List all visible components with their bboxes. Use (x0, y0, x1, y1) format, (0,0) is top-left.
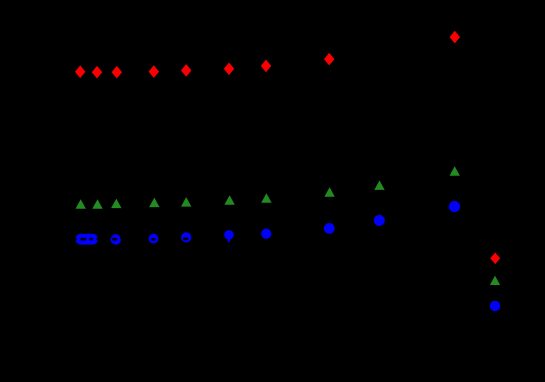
green triangle point 5 (181, 197, 191, 207)
green triangle point 4 (149, 198, 159, 208)
legend red diamond marker (490, 253, 500, 265)
legend blue circle marker (490, 301, 500, 311)
blue circle point 8 (324, 223, 335, 234)
blue circle point 10 (449, 201, 460, 212)
blue circle point 7 (261, 229, 271, 239)
blue stub below point 6 (228, 239, 230, 242)
black dashed fit line segment at cluster right edge (97, 238, 100, 241)
blue circle point 9 (374, 215, 385, 226)
red diamond point 7 (261, 60, 271, 73)
red diamond point 9 (450, 31, 460, 44)
green triangle point 8 (324, 187, 334, 197)
blue circle point 4 (149, 234, 159, 244)
red diamond point 5 (181, 64, 191, 77)
black dashed fit line segment inside point 5 (183, 238, 189, 241)
green triangle point 9 (374, 180, 384, 190)
blue circle point 3 (111, 234, 122, 245)
red diamond point 6 (224, 63, 234, 76)
green triangle point 7 (261, 193, 271, 203)
red diamond point 2 (92, 66, 102, 79)
green triangle point 10 (450, 166, 460, 176)
blue circle point 5 (181, 232, 191, 242)
black dashed fit line segment inside point 4 (151, 238, 155, 241)
green triangle point 6 (224, 195, 234, 205)
green triangle point 2 (92, 199, 102, 209)
blue merged cluster points 1-2 (75, 234, 98, 245)
red diamond point 1 (75, 65, 85, 78)
red diamond point 4 (149, 65, 159, 78)
red diamond point 8 (324, 53, 334, 66)
black dashed fit line segment at cluster left edge (73, 238, 76, 241)
blue circle point 6 (224, 230, 234, 240)
red diamond point 3 (112, 66, 122, 79)
green triangle point 1 (76, 199, 86, 209)
black dashed fit line notch at point 3 right edge (120, 237, 122, 239)
black dashed fit line segment inside point 3 (112, 238, 117, 241)
legend green triangle marker (490, 276, 500, 285)
black dashed fit line segment inside cluster 1 (81, 238, 87, 241)
green triangle point 3 (111, 199, 121, 209)
black dashed fit line segment inside cluster 2 (89, 238, 93, 241)
